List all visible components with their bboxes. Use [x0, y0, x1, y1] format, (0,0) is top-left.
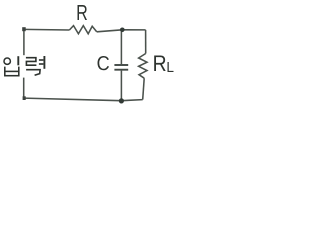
wire left upper vertical — [23, 29, 25, 55]
력 : ㅕ — [43, 56, 45, 69]
입 : ㅇ — [4, 58, 10, 64]
wire top-left horizontal — [24, 28, 69, 31]
capacitor C plates — [114, 65, 128, 70]
label R — [78, 5, 88, 20]
resistor R — [69, 26, 96, 34]
력 : ㄱ — [26, 70, 40, 76]
label RL — [154, 55, 173, 72]
terminal bottom-left — [23, 96, 26, 100]
junction dot top — [120, 28, 125, 33]
입 : ㅣ — [17, 56, 19, 65]
wire capacitor upper lead — [120, 30, 122, 64]
력 : ㄹ — [26, 58, 37, 65]
label C — [98, 56, 109, 70]
wire left lower vertical — [23, 78, 25, 98]
resistor RL zigzag — [139, 54, 147, 79]
wire capacitor lower lead — [120, 71, 122, 101]
terminal top-left — [22, 27, 26, 31]
wire bottom horizontal — [24, 98, 143, 101]
wire top-right horizontal — [97, 30, 146, 32]
junction dot bottom — [119, 98, 124, 103]
label input (Hangul 입력) — [4, 56, 44, 76]
입 : ㅂ — [4, 67, 6, 77]
wire right lower vertical — [143, 78, 145, 99]
wire right upper vertical — [145, 30, 147, 54]
